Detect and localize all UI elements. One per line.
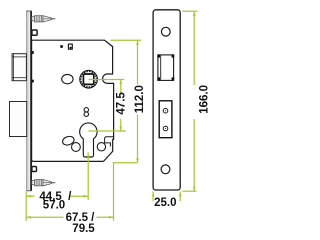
- lock case outline: [32, 40, 114, 161]
- svg-text:25.0: 25.0: [154, 197, 176, 209]
- top guide stub above case: [32, 30, 37, 35]
- dim line 166.0: [193, 11, 195, 85]
- spindle follower (circle + square hole): [80, 70, 98, 88]
- dim line 44.5/57.0: [26, 195, 34, 197]
- svg-text:166.0: 166.0: [198, 85, 210, 114]
- dim line 112.0 vertical: [137, 40, 139, 84]
- plate outline: [153, 10, 180, 190]
- euro cylinder profile hole: [80, 123, 98, 157]
- green arrowheads, left view: [26, 40, 139, 218]
- bolt hole lower: [163, 126, 168, 131]
- svg-text:112.0: 112.0: [134, 85, 146, 113]
- svg-text:47.5: 47.5: [116, 92, 128, 115]
- deadbolt (side view, left of faceplate): [10, 102, 27, 137]
- ext jog case bottom: [114, 163, 138, 221]
- latchbolt (side view, left of faceplate): [12, 54, 26, 81]
- svg-text:57.0: 57.0: [43, 200, 65, 212]
- bolt hole upper: [163, 108, 168, 113]
- ext line case top: [111, 39, 142, 41]
- screw hole bottom-right of case: [97, 143, 105, 151]
- small dot mark on case top area: [60, 45, 63, 48]
- cylinder centre vertical ext: [87, 152, 89, 199]
- svg-text:79.5: 79.5: [72, 223, 95, 235]
- ext line cylinder centre horizontal: [88, 130, 126, 132]
- circle boss left of cylinder: [72, 143, 81, 152]
- green dimensions, right view: [153, 11, 198, 201]
- figure-8 adjuster above cylinder: [84, 108, 88, 117]
- faceplate (side view bar): [26, 11, 31, 191]
- ext line plate top: [182, 10, 197, 12]
- top screw hole: [161, 27, 170, 36]
- latch stop tabs on faceplate: [32, 51, 34, 54]
- bottom guide stub below case: [32, 167, 37, 172]
- bottom screw hole: [161, 165, 170, 174]
- dim line 67.5/79.5: [26, 216, 63, 218]
- ext line plate bottom: [182, 190, 196, 192]
- deadbolt cutout: [159, 101, 172, 138]
- ext line spindle centre: [89, 79, 125, 81]
- top fixing screw: [32, 16, 56, 22]
- 25.0 ticks: [152, 192, 154, 201]
- oval boss left of cylinder: [61, 135, 75, 146]
- latch cutout: [158, 55, 174, 81]
- dim line 47.5 vertical: [120, 80, 122, 95]
- bottom fixing screw: [32, 180, 56, 186]
- small rectangular mark on case top area: [68, 44, 72, 49]
- corner insert line bottom-right: [105, 137, 114, 147]
- left ext line below faceplate: [25, 192, 27, 221]
- oval hole left of follower: [62, 74, 73, 83]
